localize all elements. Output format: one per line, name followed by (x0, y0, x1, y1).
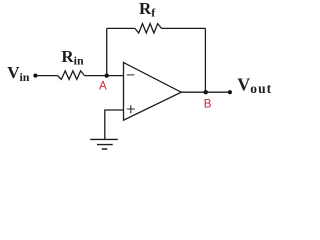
node B junction dot (204, 90, 208, 94)
wire feedback right vertical down to node B (204, 28, 206, 92)
svg-text:A: A (99, 80, 107, 93)
svg-text:Vout: Vout (237, 75, 272, 97)
svg-text:B: B (204, 98, 212, 111)
terminal dot Vin (33, 74, 37, 78)
ground (90, 139, 118, 149)
svg-text:Rin: Rin (61, 47, 84, 68)
op-amp U1 triangle (124, 63, 182, 121)
wire R_in to op-amp inverting input through node A (85, 75, 124, 77)
wire feedback top left segment (107, 27, 135, 29)
svg-text:Vin: Vin (7, 63, 30, 84)
wire Vin terminal to R_in (35, 75, 57, 77)
svg-text:Rf: Rf (139, 0, 156, 20)
op-amp inverting input minus sign (127, 74, 135, 76)
node A junction dot (105, 73, 109, 77)
op-amp non-inverting input plus sign (127, 105, 135, 113)
wire op-amp output to Vout terminal through node B (181, 91, 230, 93)
wire feedback top right segment (162, 27, 206, 29)
wire non-inverting input to ground (105, 110, 124, 139)
terminal dot Vout (228, 90, 232, 94)
resistor R_in (58, 71, 85, 80)
wire node A up to feedback branch (106, 28, 108, 75)
resistor R_f (135, 24, 162, 33)
